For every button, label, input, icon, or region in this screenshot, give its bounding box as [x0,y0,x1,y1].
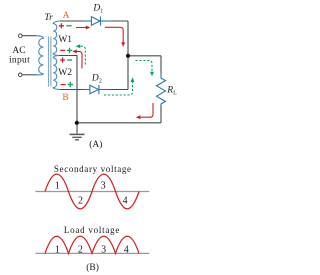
svg-text:W2: W2 [58,68,72,78]
svg-text:1: 1 [55,180,60,191]
svg-text:2: 2 [78,245,83,256]
svg-text:R: R [166,85,173,95]
svg-text:Secondary voltage: Secondary voltage [54,164,132,174]
svg-text:4: 4 [124,245,129,256]
svg-text:2: 2 [99,79,102,85]
svg-text:A: A [63,11,70,21]
svg-text:(B): (B) [86,262,99,273]
svg-text:L: L [173,90,177,96]
svg-text:Load voltage: Load voltage [64,225,120,235]
svg-text:Tr: Tr [44,13,53,23]
svg-text:1: 1 [55,245,60,256]
svg-text:input: input [9,56,30,66]
svg-text:W1: W1 [58,35,72,45]
svg-text:4: 4 [123,195,128,206]
svg-text:B: B [62,93,68,103]
svg-text:3: 3 [101,245,106,256]
svg-text:3: 3 [101,180,106,191]
svg-text:1: 1 [100,9,103,15]
svg-text:D: D [91,74,99,84]
svg-text:D: D [92,3,100,13]
svg-text:(A): (A) [89,139,102,150]
svg-text:2: 2 [78,196,83,207]
